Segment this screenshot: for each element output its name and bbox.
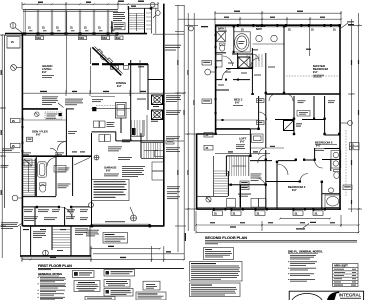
- entry porch: [30, 226, 32, 257]
- left exterior wall: [21, 33, 23, 226]
- island wall: [120, 118, 122, 133]
- box A: [73, 271, 95, 278]
- linen closets: [216, 55, 222, 61]
- box D: [104, 280, 130, 288]
- right exterior wall: [163, 4, 165, 227]
- master bottom wall: [266, 93, 340, 95]
- interior dim row: [23, 92, 184, 94]
- svg-text:9'-0": 9'-0": [240, 141, 245, 143]
- window labels bottom: [213, 211, 324, 216]
- svg-text:25.: 25.: [56, 28, 60, 30]
- porch front edge: [20, 255, 91, 257]
- left outside note: [1, 221, 18, 224]
- bath3 vanity: [331, 151, 341, 169]
- svg-text:9'-0": 9'-0": [42, 72, 47, 74]
- svg-text:MASTER: MASTER: [256, 25, 266, 28]
- loft dim row: [215, 153, 270, 155]
- garage interior: [91, 133, 93, 226]
- closets hers/his: [293, 96, 295, 135]
- door jambs: [215, 25, 341, 185]
- dim ticks plan2: [187, 12, 359, 233]
- bottom wall: [196, 208, 341, 210]
- den top wall: [23, 108, 59, 110]
- leader to second plan: [153, 33, 184, 35]
- bath2 shower: [217, 32, 226, 42]
- FIRST FLOOR PLAN: [0, 1, 186, 263]
- svg-text:9'-0": 9'-0": [36, 135, 41, 137]
- svg-text:B/02: B/02: [36, 38, 41, 40]
- dim lines left: [187, 13, 189, 231]
- master bed left wall: [283, 26, 285, 94]
- master tub: [234, 32, 250, 52]
- svg-text:BEDROOM: BEDROOM: [313, 67, 329, 71]
- keynote circles: [202, 61, 212, 66]
- window labels top: [218, 25, 337, 31]
- left porch wall: [4, 35, 6, 208]
- front wall: [22, 225, 164, 227]
- svg-text:25.: 25.: [333, 29, 337, 31]
- logo circle: [291, 294, 323, 300]
- kitchen counter lines: [91, 96, 115, 98]
- center stairs: [141, 142, 164, 144]
- top wall: [215, 24, 341, 26]
- stairs upper: [226, 155, 250, 157]
- stair landing wall: [118, 33, 147, 35]
- bed2 top wall: [216, 89, 229, 91]
- dim ticks top: [1, 3, 185, 260]
- entry partition walls: [34, 207, 36, 226]
- chase boxes: [152, 95, 163, 105]
- bath3 top wall: [325, 148, 340, 150]
- svg-text:25.: 25.: [241, 29, 245, 31]
- svg-text:25.: 25.: [98, 28, 102, 30]
- bed2 closet wall: [249, 129, 251, 156]
- hall keynote boxes: [257, 99, 265, 103]
- dim lines bottom: [280, 218, 330, 220]
- svg-text:25.: 25.: [42, 28, 46, 30]
- toilet: [40, 183, 46, 186]
- pantry shelves: [132, 120, 143, 136]
- svg-text:9'-0": 9'-0": [235, 103, 240, 105]
- left step wall: [196, 133, 215, 135]
- box F: [85, 297, 115, 300]
- bath4 tub: [325, 195, 341, 208]
- stair note text: [113, 11, 125, 14]
- svg-text:25.: 25.: [214, 213, 218, 215]
- powder labels: [58, 167, 70, 170]
- porch leader note: [2, 148, 14, 151]
- wic labels: [225, 71, 231, 74]
- window jambs bottom wall: [213, 208, 326, 211]
- slab notes box: [190, 262, 243, 282]
- bath2 toilet: [220, 43, 226, 45]
- keynote circle: [12, 195, 18, 201]
- svg-text:25.: 25.: [206, 135, 210, 137]
- left window callouts: [204, 132, 213, 137]
- bath3 toilet: [334, 170, 340, 172]
- box H: [136, 292, 166, 300]
- svg-text:LOFT: LOFT: [239, 136, 247, 140]
- keynote circle left: [11, 65, 17, 71]
- powder walls: [35, 157, 37, 196]
- box B: [104, 270, 135, 277]
- bedroom4 left wall: [276, 162, 278, 209]
- svg-text:BED 2: BED 2: [234, 98, 243, 102]
- svg-text:9'-0": 9'-0": [313, 72, 318, 74]
- svg-text:DINING: DINING: [116, 81, 127, 85]
- insulation notes box: [190, 283, 241, 297]
- svg-text:B/02: B/02: [79, 38, 84, 40]
- kitchen lower counter wall: [92, 63, 148, 65]
- logo J glyph: [327, 292, 339, 300]
- keynote circle top-left: [10, 23, 16, 29]
- mud bench boxes: [99, 135, 105, 142]
- den bottom wall: [22, 155, 91, 157]
- right window callout: [350, 143, 360, 147]
- area sqft table: [333, 264, 359, 287]
- bed2 bottom wall: [216, 128, 250, 130]
- left wall upper: [215, 25, 217, 134]
- fan symbol: [131, 215, 137, 221]
- shower with X: [238, 57, 250, 68]
- closet wall: [226, 68, 252, 70]
- dim line right: [177, 5, 179, 252]
- entry labels: [24, 208, 33, 211]
- keynote circles stair: [150, 2, 155, 7]
- svg-text:25.: 25.: [233, 213, 237, 215]
- closet bottom wall: [275, 119, 294, 121]
- SECOND FLOOR PLAN: [178, 11, 362, 234]
- den door arc: [57, 142, 66, 151]
- dashed overhang: [345, 130, 347, 196]
- title block: [289, 290, 364, 292]
- box C plan wall notes: [74, 281, 100, 292]
- general notes items: [38, 276, 39, 279]
- master vanity: [253, 43, 285, 45]
- svg-text:9'-0": 9'-0": [292, 190, 297, 192]
- svg-text:BATH 2: BATH 2: [218, 27, 227, 30]
- box G: [143, 281, 160, 290]
- svg-text:25.: 25.: [288, 29, 292, 31]
- bath4 toilet: [328, 188, 333, 193]
- svg-text:25.: 25.: [12, 121, 16, 123]
- keynote box right: [343, 185, 352, 190]
- B/02 boxed labels: [36, 36, 44, 40]
- kitchen appliances: [100, 54, 107, 61]
- dim line left: [1, 35, 3, 258]
- svg-text:25.: 25.: [315, 213, 319, 215]
- tub: [38, 162, 47, 177]
- note box: [204, 248, 234, 260]
- bed2 right wall: [258, 96, 260, 129]
- bath2 walls: [233, 26, 235, 53]
- svg-text:B/02: B/02: [116, 38, 121, 40]
- box E: [104, 289, 133, 297]
- laundry: [238, 193, 251, 196]
- svg-text:FIRST FLOOR PLAN: FIRST FLOOR PLAN: [38, 264, 72, 268]
- left wall lower: [196, 134, 198, 210]
- svg-text:DEN / FLEX: DEN / FLEX: [32, 130, 48, 134]
- entry dim labels: [23, 229, 29, 230]
- svg-text:9'-0": 9'-0": [106, 171, 111, 173]
- dim line bottom: [91, 248, 160, 250]
- svg-text:25.: 25.: [295, 213, 299, 215]
- stairs lower left: [23, 161, 35, 196]
- sheet note box: [103, 233, 128, 244]
- hall wall: [216, 79, 222, 81]
- svg-text:25.: 25.: [257, 213, 261, 215]
- hall wall: [72, 157, 74, 196]
- right rooms: [152, 162, 164, 171]
- dim lines right: [351, 19, 353, 212]
- window labels 25: [28, 28, 114, 30]
- svg-text:2ND FL. GENERAL NOTES.: 2ND FL. GENERAL NOTES.: [288, 249, 323, 253]
- entry wall: [22, 206, 60, 208]
- kitchen island: [116, 103, 127, 119]
- hall labels: [68, 130, 77, 133]
- den wall right: [65, 109, 67, 157]
- two story line: [65, 12, 67, 94]
- tray dashed: [286, 75, 339, 77]
- hall dim row: [250, 147, 284, 149]
- interior wall kitchen right: [130, 60, 132, 141]
- svg-text:9'-0": 9'-0": [316, 146, 321, 148]
- svg-text:25.: 25.: [28, 28, 32, 30]
- tank note box: [92, 180, 130, 201]
- right wall: [339, 25, 341, 210]
- svg-text:25.: 25.: [206, 148, 210, 150]
- wh box: [24, 159, 32, 166]
- dim line top: [22, 3, 158, 5]
- chase notes: [166, 94, 181, 97]
- stacked note block: [65, 98, 83, 101]
- svg-text:BEDROOM 3: BEDROOM 3: [315, 141, 333, 145]
- svg-text:GARAGE: GARAGE: [104, 166, 116, 170]
- svg-text:25.: 25.: [12, 146, 16, 148]
- bottom notes: [38, 233, 365, 300]
- window sill lines: [5, 33, 118, 35]
- svg-text:25.: 25.: [112, 68, 116, 70]
- dashed box: [45, 112, 62, 119]
- bath3 walls: [250, 160, 272, 162]
- linen box: [54, 166, 66, 173]
- window jambs top wall: [237, 24, 340, 27]
- living note block: [42, 96, 58, 99]
- svg-text:SECOND FLOOR PLAN: SECOND FLOOR PLAN: [205, 236, 247, 240]
- stairwell top right: [128, 6, 130, 34]
- dim lines top: [215, 12, 341, 14]
- svg-text:25.: 25.: [351, 148, 355, 150]
- svg-text:9'-0": 9'-0": [117, 86, 122, 88]
- svg-text:25.: 25.: [84, 28, 88, 30]
- top window wall: [23, 9, 119, 11]
- svg-text:BEDROOM 4: BEDROOM 4: [288, 185, 306, 189]
- svg-text:BATH: BATH: [256, 28, 262, 31]
- keynote circle hall: [94, 155, 99, 160]
- svg-text:25.: 25.: [70, 28, 74, 30]
- svg-text:B/02: B/02: [102, 38, 107, 40]
- svg-text:GENERAL NOTES: GENERAL NOTES: [38, 272, 62, 276]
- svg-text:INTEGRAL: INTEGRAL: [339, 292, 362, 297]
- svg-text:AREA SQFT: AREA SQFT: [334, 265, 348, 268]
- attic access: [284, 121, 294, 131]
- kitchen diagonal wall: [92, 47, 121, 75]
- window label left wall: [11, 118, 21, 122]
- garage door label: [105, 220, 125, 223]
- stairs lower flight: [214, 171, 228, 194]
- svg-text:25.: 25.: [311, 29, 315, 31]
- svg-text:LIVING: LIVING: [42, 67, 52, 71]
- svg-text:25.: 25.: [11, 42, 15, 44]
- mud boxes: [94, 121, 100, 128]
